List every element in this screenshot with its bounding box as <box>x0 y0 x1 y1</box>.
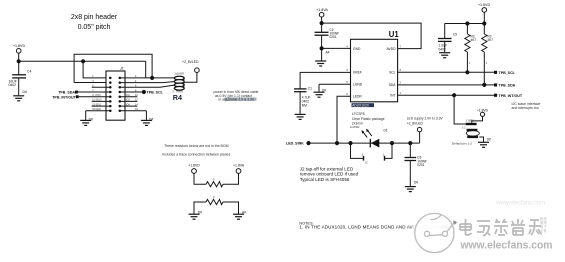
svg-text:0402: 0402 <box>439 47 446 51</box>
svg-text:+1.8VD: +1.8VD <box>477 108 489 112</box>
svg-text:SEL1: SEL1 <box>96 103 103 106</box>
ground (C1) <box>295 114 306 119</box>
capacitor C2 <box>315 28 340 60</box>
svg-text:U1: U1 <box>389 30 400 39</box>
svg-text:0402: 0402 <box>9 83 17 87</box>
svg-text:TPB_INT/OUT: TPB_INT/OUT <box>499 94 523 98</box>
wire outer loop <box>74 54 154 82</box>
power +2_8VLED (LED supply) <box>407 117 444 144</box>
svg-text:+1.8VA: +1.8VA <box>316 8 328 12</box>
power +1.8VA (bottom) <box>233 164 245 174</box>
wire LGND to ground <box>319 84 351 92</box>
capacitor C4 <box>9 61 32 95</box>
svg-text:AVDD: AVDD <box>387 47 397 51</box>
ground (jumper) <box>478 142 489 147</box>
svg-text:J1: J1 <box>119 67 124 71</box>
svg-text:TPB_INT/OUT: TPB_INT/OUT <box>52 95 76 99</box>
wire header row2 to R4 <box>120 82 175 83</box>
resistor R3 <box>465 24 477 73</box>
text power note <box>214 90 259 101</box>
svg-text:Typical LED is SFH4056: Typical LED is SFH4056 <box>300 177 350 182</box>
text BOM note <box>162 144 230 157</box>
wire SCL line <box>398 71 496 74</box>
power +1.8VD (jumper) <box>472 108 489 123</box>
watermark logo <box>415 213 457 252</box>
svg-text:C1: C1 <box>308 86 312 90</box>
svg-text:SCL: SCL <box>389 71 396 75</box>
svg-text:4K7: 4K7 <box>487 38 493 42</box>
resistor R2 <box>482 24 494 85</box>
wire R4 to LED supply <box>184 73 197 83</box>
wire header left row7 stub <box>92 103 111 106</box>
svg-text:R4: R4 <box>173 93 182 102</box>
ground (C6) <box>405 187 416 192</box>
wire +1.8VA rail to AVDD <box>322 23 422 48</box>
ground (C4) <box>13 96 24 101</box>
svg-text:D#: D# <box>23 90 27 94</box>
svg-text:+1.8VD: +1.8VD <box>13 44 25 48</box>
svg-text:+2_8VLED: +2_8VLED <box>407 122 424 126</box>
svg-text:IO3: IO3 <box>126 99 131 102</box>
power +1.8VD pullup rail <box>445 3 491 25</box>
connector J2 tap loop <box>350 126 392 165</box>
svg-text:LEDR: LEDR <box>353 95 362 99</box>
text NOTES <box>299 221 450 229</box>
node TPB_SCL <box>120 90 164 94</box>
svg-text:IO4: IO4 <box>126 103 131 106</box>
wire VREF <box>300 72 350 88</box>
watermark vertical text <box>540 216 547 233</box>
node TPB_SDA <box>58 91 110 95</box>
wire +1.8VD rail <box>19 60 146 62</box>
IC U1 ADUX1020 <box>346 30 401 102</box>
node LED_SINK <box>286 142 310 146</box>
svg-text:+1.8VD: +1.8VD <box>478 3 490 7</box>
wire LEDR down to LED line <box>337 96 351 143</box>
wire INT line <box>398 94 496 97</box>
svg-text:LFCSP8: LFCSP8 <box>352 112 365 116</box>
watermark brand glyphs <box>460 219 542 236</box>
wire header left row6 stub <box>92 99 111 102</box>
svg-text:TPB_SDA: TPB_SDA <box>58 91 75 95</box>
svg-text:and interrupts too: and interrupts too <box>512 106 539 110</box>
svg-text:These resistors below are not: These resistors below are not in the BOM <box>164 144 228 148</box>
svg-text:LED_SINK: LED_SINK <box>286 142 304 146</box>
node TPB_SDA right <box>494 83 516 87</box>
text U1 package <box>352 103 385 125</box>
wire INT branch to jumper <box>454 95 467 124</box>
svg-text:4K7: 4K7 <box>471 38 477 42</box>
wire header right row8 to ground <box>120 111 154 122</box>
wire header row1 to R4 <box>120 77 175 79</box>
svg-text:Default pin 1-2: Default pin 1-2 <box>452 142 472 146</box>
node TPB_INT/OUT right <box>494 94 523 98</box>
svg-text:www.elecfans.com: www.elecfans.com <box>460 240 553 252</box>
text pin numbers <box>92 75 138 111</box>
node TPB_INT/OUT <box>52 94 110 99</box>
svg-text:C5: C5 <box>453 32 457 36</box>
wire SDA line <box>398 83 496 86</box>
svg-text:1-2: 1-2 <box>462 126 466 129</box>
wire header right row7 stub <box>120 103 138 106</box>
svg-text:INT0: INT0 <box>96 94 102 97</box>
capacitor C1 <box>294 86 312 114</box>
svg-text:D1: D1 <box>384 128 388 132</box>
wire LED line <box>309 142 420 145</box>
text I2C note <box>512 102 541 110</box>
svg-text:INT: INT <box>390 94 395 98</box>
svg-text:SDA: SDA <box>389 83 397 87</box>
svg-text:Clear Plastic package: Clear Plastic package <box>352 117 385 121</box>
resistor network R4 <box>173 73 185 102</box>
power +1.8VD left <box>13 44 25 63</box>
ground (bottom left) <box>189 214 200 219</box>
power +2_8VLED (R4) <box>182 60 199 73</box>
svg-text:D#: D# <box>487 138 491 142</box>
svg-text:2x1HDR: 2x1HDR <box>175 73 185 76</box>
svg-text:头条: 头条 <box>540 228 547 233</box>
title text <box>71 14 118 31</box>
svg-text:SEL0: SEL0 <box>96 99 103 102</box>
ground (LGND) <box>314 92 325 97</box>
capacitor C5 <box>438 24 457 53</box>
wire header right row6 stub <box>120 99 138 102</box>
svg-text:A#: A# <box>326 50 330 54</box>
svg-text:0.05" pitch: 0.05" pitch <box>78 24 111 31</box>
svg-text:2x8 pin header: 2x8 pin header <box>71 14 118 21</box>
svg-text:+1.8VA: +1.8VA <box>233 164 245 168</box>
connector J1 2x8 header <box>106 67 125 121</box>
wire header left row8 to ground <box>86 108 111 122</box>
wire header right row5 stub <box>120 94 138 97</box>
resistor R6 0 ohm ground <box>194 195 246 214</box>
svg-text:J2 tap-off for external LED: J2 tap-off for external LED <box>300 166 354 171</box>
LED D1 <box>361 128 387 147</box>
svg-text:Includes a trace connection be: Includes a trace connection between plan… <box>162 153 230 157</box>
svg-text:TPB_SCL: TPB_SCL <box>147 91 164 95</box>
power +1.8VA <box>316 8 328 32</box>
svg-text:2x1HDR: 2x1HDR <box>350 126 360 129</box>
svg-text:LED supply 2.0V to 3.3V: LED supply 2.0V to 3.3V <box>407 117 444 121</box>
svg-text:NM: NM <box>302 103 307 107</box>
wire inner loop <box>82 60 146 78</box>
svg-text:0201: 0201 <box>330 35 337 39</box>
svg-text:D#: D# <box>414 181 418 185</box>
svg-text:VREF: VREF <box>353 71 362 75</box>
node C2/GND pin <box>320 47 351 50</box>
wire jumper to ground <box>479 137 491 142</box>
svg-text:+2_8VLED: +2_8VLED <box>182 60 199 64</box>
wire header row3 to R4 <box>120 85 175 87</box>
svg-text:www.elecfans.com: www.elecfans.com <box>495 200 545 207</box>
wire header left row3 stub <box>92 86 111 88</box>
resistor R5 0 ohm supply <box>194 173 239 186</box>
svg-text:IO2: IO2 <box>126 94 131 97</box>
connector J3 jumper <box>462 120 479 138</box>
svg-text:ADUX1020: ADUX1020 <box>352 103 369 107</box>
svg-text:TPB_SDA: TPB_SDA <box>499 84 516 88</box>
svg-text:TPB_SCL: TPB_SCL <box>499 71 516 75</box>
svg-text:LGND: LGND <box>353 83 363 87</box>
text J2 note <box>300 166 359 182</box>
svg-text:or adjustable 2.0 & 3.3V: or adjustable 2.0 & 3.3V <box>218 98 255 102</box>
ground (header left) <box>80 120 91 125</box>
node TPB_SCL right <box>494 71 516 75</box>
svg-text:GND: GND <box>96 108 102 111</box>
ground (C5) <box>439 53 450 58</box>
ground (bottom right) <box>233 214 244 219</box>
svg-text:0201: 0201 <box>417 163 424 167</box>
svg-text:GND: GND <box>353 47 361 51</box>
svg-text:+1.8VD: +1.8VD <box>188 164 200 168</box>
power +1.8VD (bottom) <box>188 164 200 174</box>
ground (C2) <box>315 61 326 66</box>
svg-text:remove onboard LED if used: remove onboard LED if used <box>300 172 359 177</box>
capacitor C6 <box>405 143 427 186</box>
ground (header right) <box>141 120 152 125</box>
svg-text:C4: C4 <box>27 70 31 74</box>
